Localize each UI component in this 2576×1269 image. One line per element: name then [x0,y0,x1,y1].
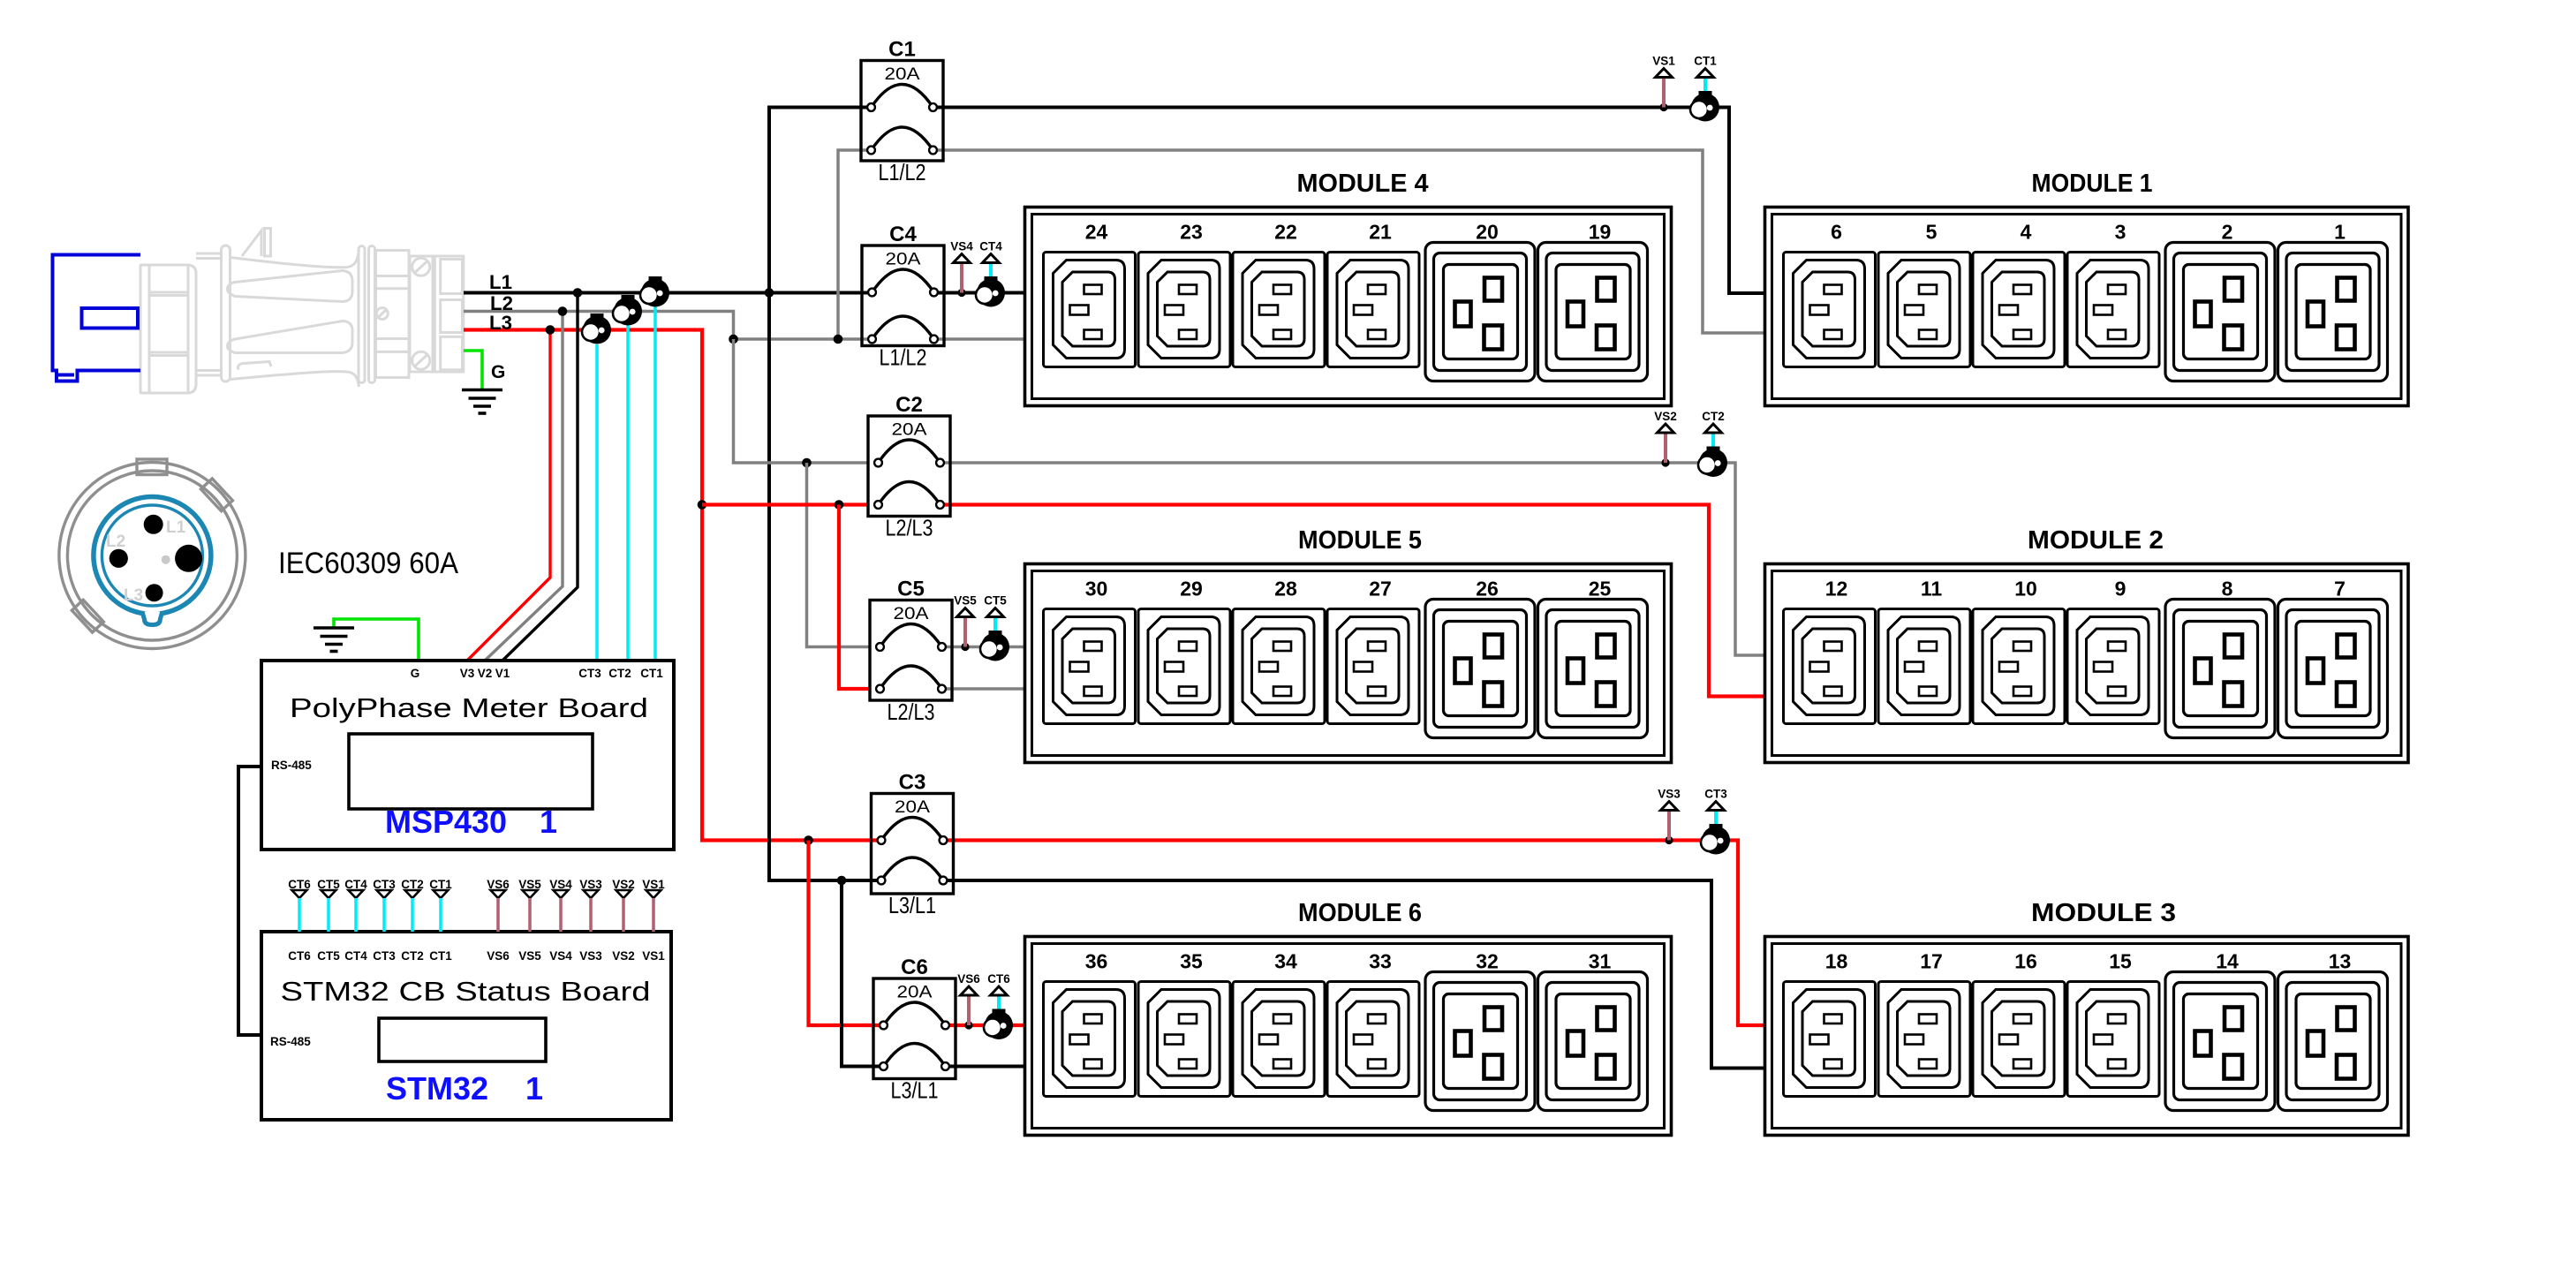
outlet 27 (IEC C13) [1327,578,1419,724]
junction on L2 [558,306,568,316]
svg-text:C1: C1 [888,38,916,62]
outlet 35 (IEC C13) [1138,950,1230,1097]
svg-text:VS5: VS5 [954,594,977,608]
outlet 19 (IEC C19) [1538,221,1648,381]
signal arrow VS6 into STM32 board [487,878,510,963]
outlet 14 (IEC C19) [2165,950,2275,1111]
svg-text:IEC60309 60A: IEC60309 60A [278,547,458,580]
wire L1 (black) from plug to breaker C4 [464,291,873,295]
outlet 26 (IEC C19) [1425,578,1535,738]
MODULE 2 outlet module [1765,526,2409,763]
svg-text:29: 29 [1180,578,1203,601]
svg-text:L2: L2 [106,533,125,551]
svg-text:CT5: CT5 [984,594,1007,608]
svg-text:VS3: VS3 [1658,788,1681,801]
outlet 11 (IEC C13) [1878,578,1970,724]
svg-text:VS4: VS4 [950,240,973,253]
svg-text:CT1: CT1 [640,667,663,680]
svg-text:PolyPhase Meter Board: PolyPhase Meter Board [290,692,648,723]
svg-text:MODULE 5: MODULE 5 [1298,526,1422,555]
outlet 21 (IEC C13) [1327,221,1419,367]
outlet 2 (IEC C19) [2165,221,2275,381]
junction black to C6 [837,876,847,886]
voltage sense wire V2 (gray) from L2 to meter board [485,312,563,661]
MODULE 1 outlet module [1765,170,2409,406]
signal arrow VS4 into STM32 board [549,878,572,963]
outlet 32 (IEC C19) [1425,950,1535,1111]
svg-text:23: 23 [1180,221,1203,244]
svg-text:L2/L3: L2/L3 [886,515,933,541]
svg-text:CT5: CT5 [317,949,340,963]
outlet 13 (IEC C19) [2278,950,2388,1111]
voltage sense tap VS4 [950,240,973,298]
svg-text:CT1: CT1 [1694,55,1717,68]
svg-text:RS-485: RS-485 [270,1035,311,1048]
svg-text:31: 31 [1589,950,1612,973]
outlet 31 (IEC C19) [1538,950,1648,1111]
svg-text:VS2: VS2 [1654,410,1677,423]
signal arrow CT4 into STM32 board [344,878,367,963]
outlet 34 (IEC C13) [1233,950,1325,1097]
wire red branch down to C6 input 1 [809,841,884,1026]
svg-text:1: 1 [540,804,557,840]
svg-text:15: 15 [2109,950,2132,973]
ground symbol at plug [462,390,502,414]
svg-text:VS6: VS6 [957,972,980,986]
outlet 25 (IEC C19) [1538,578,1648,738]
svg-text:C4: C4 [889,223,917,246]
circuit breaker C2 20A (L2/L3) [868,393,950,541]
wire ground (green) from plug to earth [464,351,482,390]
wire red branch to C2 input 2 [702,502,868,506]
svg-text:8: 8 [2222,578,2233,601]
svg-text:CT2: CT2 [608,667,631,680]
svg-text:7: 7 [2334,578,2346,601]
signal arrow CT6 into STM32 board [288,878,311,963]
wire C1 input 2 (gray) riser [838,150,872,339]
wire C3 output 1 (red) to module 3 [943,841,1765,1026]
CT sensor tap CT4 [976,240,1005,307]
svg-text:MSP430: MSP430 [385,804,507,840]
svg-text:28: 28 [1274,578,1297,601]
wire C4 output 1 (black) to module 4 [934,291,1025,295]
voltage sense tap VS3 [1658,788,1681,845]
outlet 30 (IEC C13) [1044,578,1136,724]
svg-text:CT3: CT3 [1704,788,1727,801]
svg-text:CT4: CT4 [979,240,1002,253]
svg-text:VS1: VS1 [642,949,665,963]
svg-text:10: 10 [2014,578,2037,601]
ground symbol near meter board [314,628,354,652]
signal arrow VS2 into STM32 board [612,878,635,963]
junction on L1 [573,288,583,298]
PolyPhase Meter Board U1 [261,661,674,850]
svg-text:20A: 20A [895,798,930,817]
svg-text:25: 25 [1589,578,1612,601]
MODULE 4 outlet module [1025,170,1672,406]
svg-text:12: 12 [1825,578,1848,601]
wire black branch down to C6 input 2 [842,880,883,1067]
outlet 8 (IEC C19) [2165,578,2275,738]
CT sensor tap CT6 [984,972,1013,1039]
svg-text:MODULE 3: MODULE 3 [2031,899,2176,927]
svg-text:CT2: CT2 [401,949,424,963]
svg-text:CT2: CT2 [1702,410,1725,423]
outlet 10 (IEC C13) [1973,578,2065,724]
svg-text:20: 20 [1476,221,1499,244]
svg-text:C2: C2 [895,393,923,417]
outlet 5 (IEC C13) [1878,221,1970,367]
outlet 22 (IEC C13) [1233,221,1325,367]
svg-text:34: 34 [1274,950,1297,973]
svg-text:1: 1 [525,1070,543,1107]
wire C1 output 1 (black) to module 1 [933,108,1765,294]
svg-text:20A: 20A [892,421,927,440]
svg-text:20A: 20A [886,251,921,269]
outlet 7 (IEC C19) [2278,578,2388,738]
svg-text:18: 18 [1825,950,1848,973]
wire C5 output 2 (gray) to module 5 [942,687,1025,691]
wire gray branch down to C5 input 1 [807,463,871,647]
wire L2 (gray) from plug, jog down to breaker C4 input 2 [464,312,873,340]
outlet 3 (IEC C13) [2067,221,2159,367]
svg-text:14: 14 [2216,950,2239,973]
svg-text:L1: L1 [166,518,186,537]
svg-text:V2: V2 [478,667,493,680]
outlet 33 (IEC C13) [1327,950,1419,1097]
outlet 15 (IEC C13) [2067,950,2159,1097]
svg-text:35: 35 [1180,950,1203,973]
voltage sense tap VS5 [954,594,977,652]
CT3 secondary wire (cyan) to meter board [595,344,599,661]
svg-text:G: G [491,362,505,382]
svg-text:L1/L2: L1/L2 [879,159,926,185]
voltage sense wire V3 (red) from L3 to meter board [467,330,550,661]
svg-text:27: 27 [1369,578,1392,601]
svg-text:32: 32 [1476,950,1499,973]
svg-text:CT4: CT4 [344,949,367,963]
IEC60309 60A plug (side view) [140,229,464,394]
svg-text:5: 5 [1926,221,1938,244]
outlet 24 (IEC C13) [1044,221,1136,367]
wire C6 output 1 (red) to module 6 [946,1024,1025,1027]
wire L1 riser (black) to C1 and down to C3 [769,108,872,293]
signal arrow CT1 into STM32 board [429,878,452,963]
signal arrow VS5 into STM32 board [518,878,541,963]
junction red to C6 [804,835,813,845]
junction on L3 [546,325,555,335]
wire C4 output 2 (gray) to module 4 [934,337,1025,341]
svg-text:20A: 20A [894,605,929,623]
outlet 23 (IEC C13) [1138,221,1230,367]
svg-text:MODULE 6: MODULE 6 [1298,899,1422,927]
IEC60309 connector face view [59,459,246,649]
svg-text:C5: C5 [897,578,925,601]
circuit breaker C3 20A (L3/L1) [872,771,954,919]
junction gray riser at C4 input wire [834,335,843,344]
circuit breaker C1 20A (L1/L2) [861,38,943,186]
junction gray to C5 [802,458,812,468]
current transformer CT1 on L1 [640,276,669,307]
outlet 29 (IEC C13) [1138,578,1230,724]
svg-text:VS6: VS6 [487,949,510,963]
wire L3 (red) from plug down to breaker C3 input 1 [464,330,881,841]
wire C6 output 2 (black) to module 6 [946,1065,1025,1069]
svg-text:11: 11 [1921,578,1943,601]
svg-text:L2/L3: L2/L3 [888,699,935,725]
svg-text:2: 2 [2222,221,2233,244]
svg-text:VS5: VS5 [518,949,541,963]
plug cable connector (blue) [53,255,141,381]
signal arrow CT5 into STM32 board [317,878,340,963]
svg-text:20A: 20A [897,984,933,1002]
svg-text:L3/L1: L3/L1 [888,892,936,918]
MODULE 6 outlet module [1025,899,1672,1136]
signal arrow VS3 into STM32 board [579,878,602,963]
wire gray branch down to C2 input 1 [734,339,869,463]
svg-text:C6: C6 [901,956,928,979]
voltage sense tap VS1 [1652,55,1675,112]
svg-text:CT1: CT1 [429,949,452,963]
svg-text:30: 30 [1085,578,1108,601]
outlet 12 (IEC C13) [1784,578,1876,724]
svg-text:L3: L3 [489,312,512,334]
outlet 28 (IEC C13) [1233,578,1325,724]
svg-text:CT6: CT6 [987,972,1010,986]
wire red branch down to C5 input 2 [839,505,870,690]
svg-text:VS1: VS1 [1652,55,1675,68]
circuit breaker C6 20A (L3/L1) [873,956,956,1104]
svg-text:L3/L1: L3/L1 [891,1077,939,1104]
CT1 secondary wire (cyan) to meter board [653,306,657,661]
current transformer CT2 on L2 [613,295,642,326]
svg-text:1: 1 [2334,221,2346,244]
RS-485 wire between boards [238,767,261,1035]
svg-text:24: 24 [1085,221,1108,244]
junction L1 riser [765,288,774,298]
current transformer CT3 on L3 [582,313,611,344]
svg-text:MODULE 1: MODULE 1 [2032,170,2153,198]
svg-text:13: 13 [2329,950,2352,973]
svg-text:20A: 20A [885,65,920,84]
svg-text:21: 21 [1369,221,1392,244]
MODULE 3 outlet module [1765,899,2409,1136]
circuit breaker C5 20A (L2/L3) [870,578,952,726]
outlet 18 (IEC C13) [1784,950,1876,1097]
STM32 CB Status Board U2 [261,932,671,1120]
voltage sense wire V1 (black) from L1 to meter board [502,293,578,661]
circuit breaker C4 20A (L1/L2) [862,223,944,371]
outlet 9 (IEC C13) [2067,578,2159,724]
wire C1 output 2 (gray) to module 1 [933,150,1765,333]
signal arrow VS1 into STM32 board [642,878,665,963]
CT sensor tap CT3 [1701,788,1730,855]
svg-text:RS-485: RS-485 [271,759,312,772]
svg-text:9: 9 [2115,578,2127,601]
svg-text:3: 3 [2115,221,2127,244]
svg-text:36: 36 [1085,950,1108,973]
svg-text:6: 6 [1831,221,1842,244]
svg-text:VS3: VS3 [579,949,602,963]
outlet 4 (IEC C13) [1973,221,2065,367]
svg-text:19: 19 [1589,221,1612,244]
svg-text:CT6: CT6 [288,949,311,963]
CT sensor tap CT1 [1690,55,1719,122]
svg-text:17: 17 [1920,950,1943,973]
green ground wire to meter board [334,619,419,661]
svg-text:CT3: CT3 [373,949,396,963]
junction gray at L2 jog [729,335,738,344]
CT sensor tap CT5 [980,594,1009,661]
svg-text:22: 22 [1274,221,1297,244]
signal arrow CT3 into STM32 board [373,878,396,963]
svg-text:26: 26 [1476,578,1499,601]
outlet 20 (IEC C19) [1425,221,1535,381]
CT2 secondary wire (cyan) to meter board [626,325,630,661]
outlet 1 (IEC C19) [2278,221,2388,381]
wire C2 output 1 (gray) to module 2 [941,463,1765,655]
svg-text:MODULE 4: MODULE 4 [1297,170,1429,198]
svg-text:MODULE 2: MODULE 2 [2028,526,2164,555]
voltage sense tap VS6 [957,972,980,1030]
signal arrow CT2 into STM32 board [401,878,424,963]
outlet 6 (IEC C13) [1784,221,1876,367]
outlet 36 (IEC C13) [1044,950,1136,1097]
svg-text:STM32 CB Status Board: STM32 CB Status Board [281,976,651,1007]
svg-text:L3: L3 [124,586,143,605]
svg-text:VS4: VS4 [549,949,572,963]
svg-text:33: 33 [1369,950,1392,973]
junction red to C2 [698,500,707,510]
svg-text:L1: L1 [489,271,512,293]
junction red to C5 [835,500,844,510]
svg-text:16: 16 [2014,950,2037,973]
svg-text:V1: V1 [495,667,510,680]
svg-text:STM32: STM32 [386,1070,488,1107]
voltage sense tap VS2 [1654,410,1677,467]
CT sensor tap CT2 [1698,410,1727,477]
svg-text:L1/L2: L1/L2 [880,344,927,371]
outlet 17 (IEC C13) [1878,950,1970,1097]
svg-text:V3: V3 [460,667,475,680]
svg-text:G: G [411,667,420,680]
wire C5 output 1 (gray) to module 5 [942,646,1025,649]
svg-text:C3: C3 [899,771,926,795]
svg-text:CT3: CT3 [578,667,601,680]
wire C2 output 2 (red) to module 2 [941,505,1765,697]
wire C3 output 2 (black) to module 3 [943,880,1765,1069]
svg-text:VS2: VS2 [612,949,635,963]
MODULE 5 outlet module [1025,526,1672,763]
svg-text:4: 4 [2021,221,2032,244]
outlet 16 (IEC C13) [1973,950,2065,1097]
